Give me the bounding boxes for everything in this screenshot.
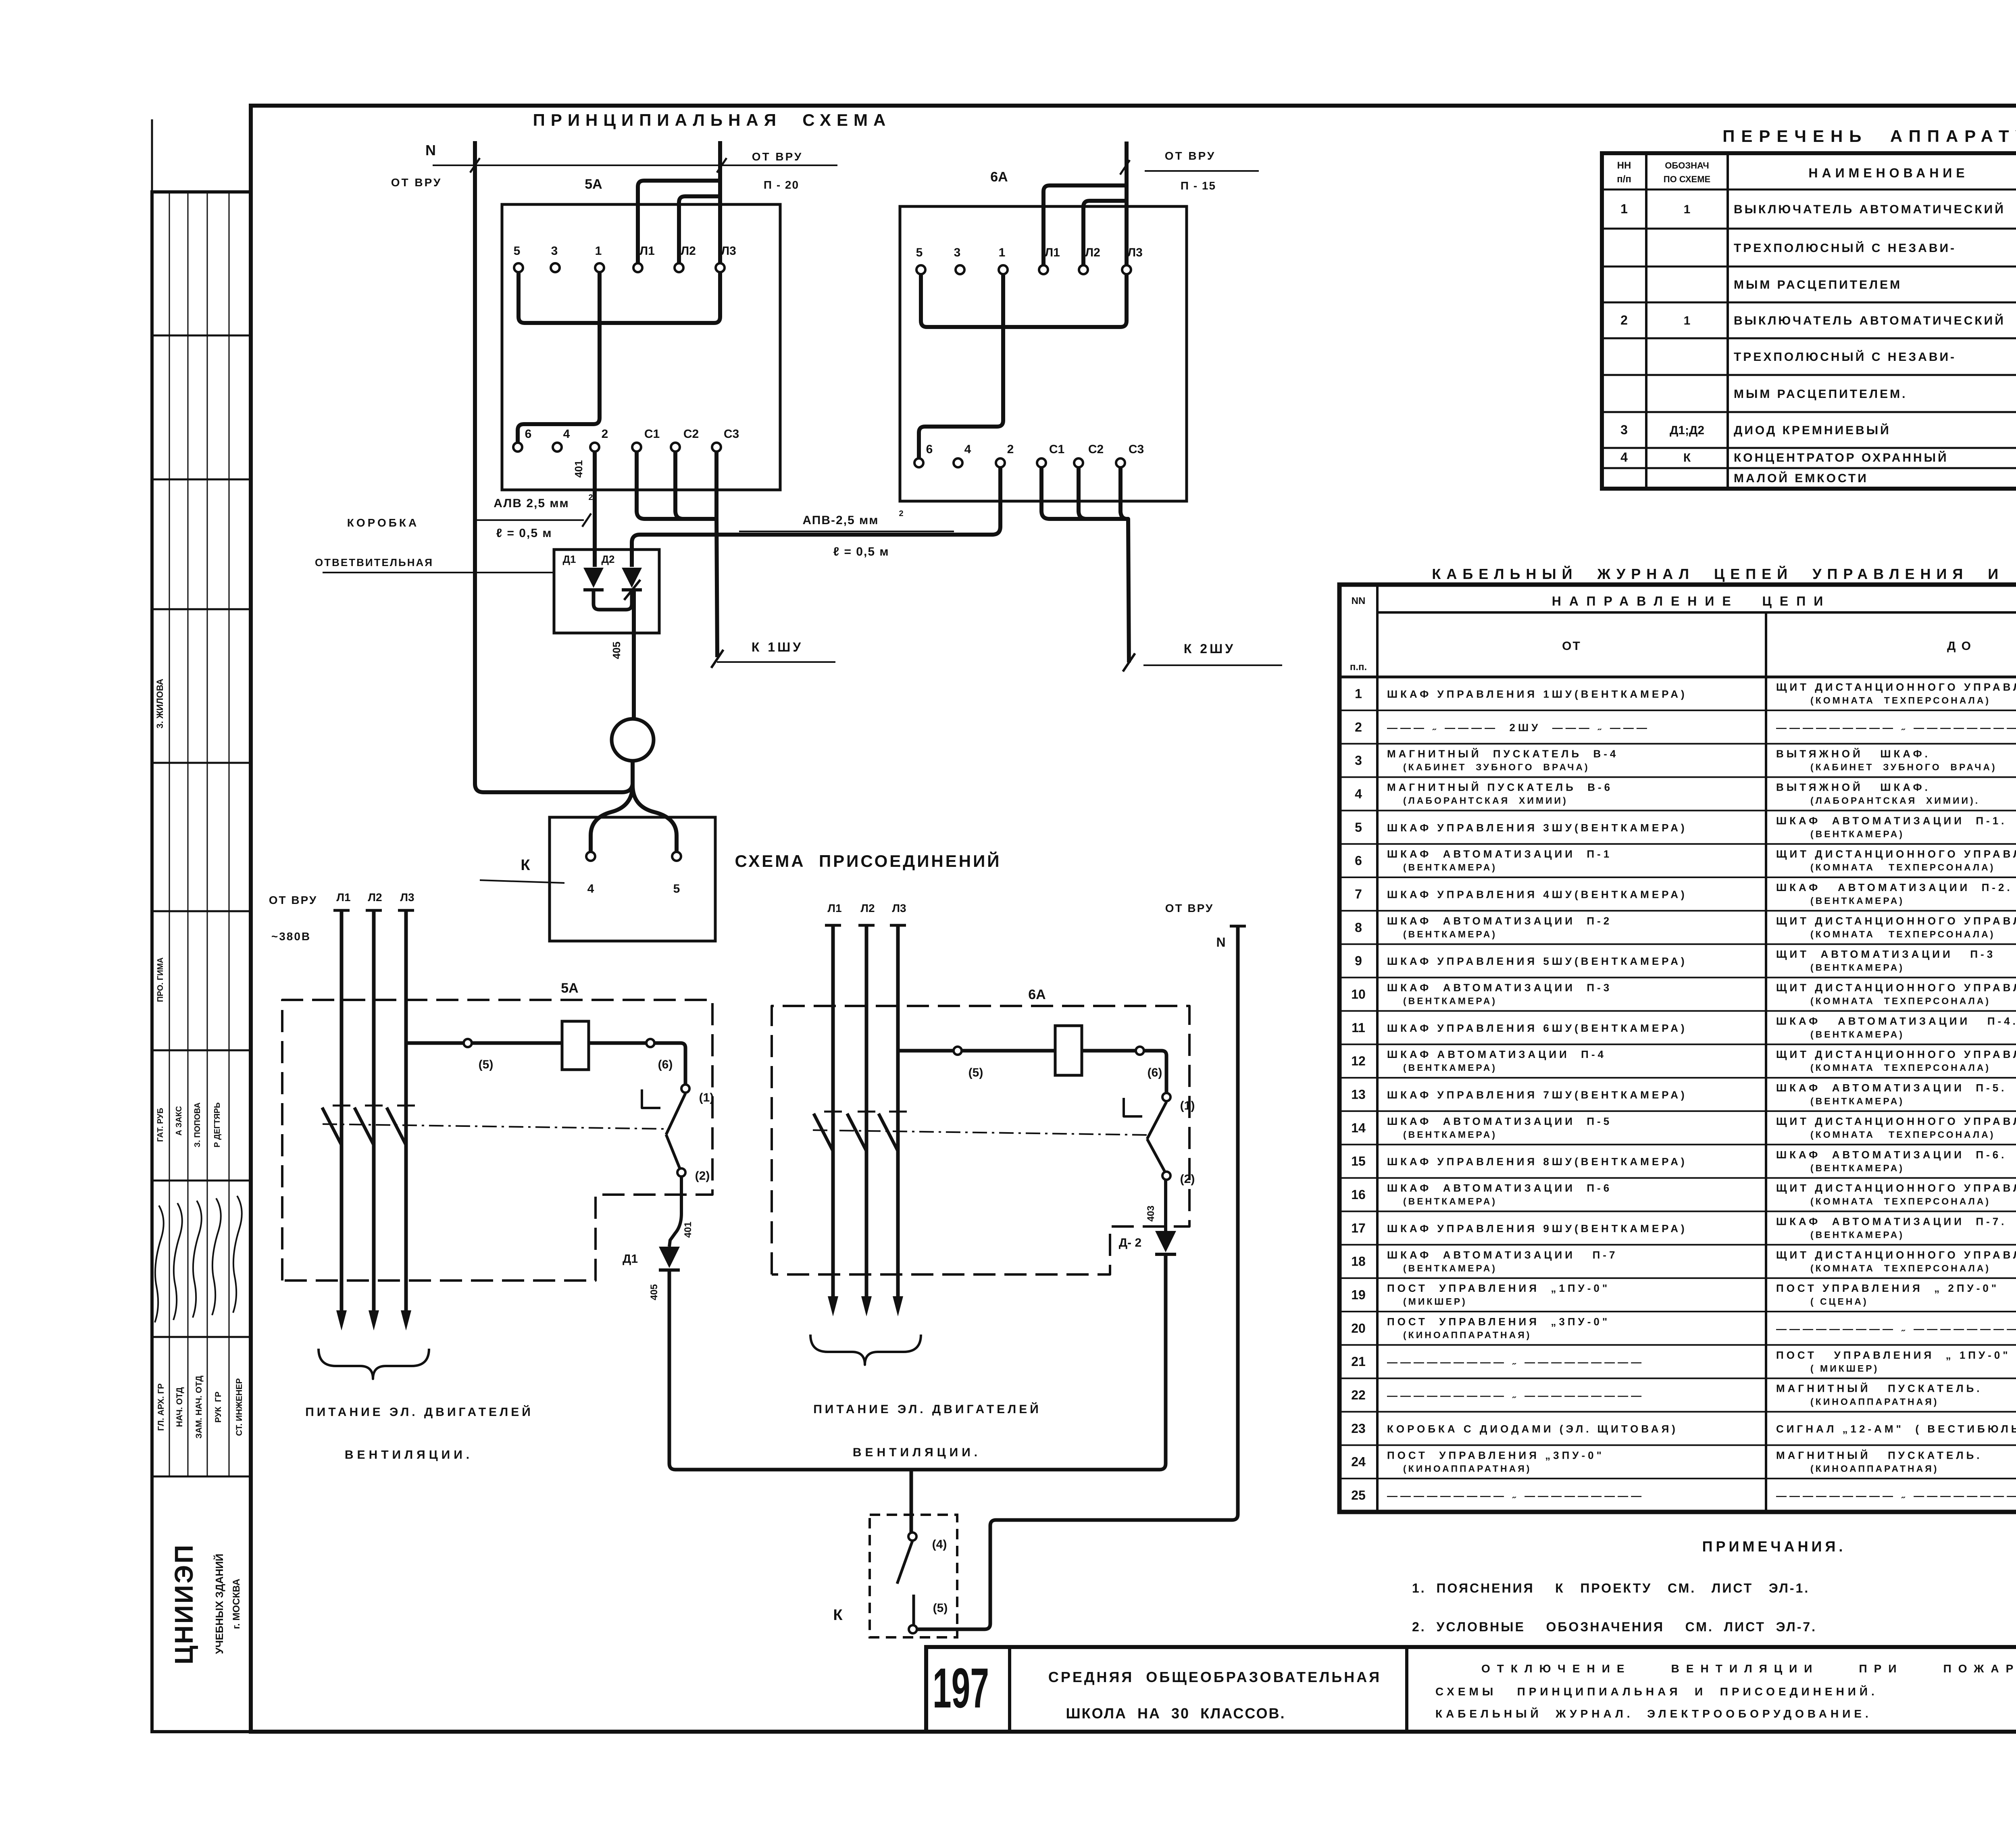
svg-text:2. УСЛОВНЫЕ ОБОЗНАЧЕНИЯ: 2. УСЛОВНЫЕ ОБОЗНАЧЕНИЯ СМ. ЛИСТ ЭЛ-7. [1412,1620,1817,1634]
svg-text:4: 4 [587,882,594,895]
svg-text:ШКАФ АВТОМАТИЗАЦИИ П-3: ШКАФ АВТОМАТИЗАЦИИ П-3 [1387,982,1612,994]
K terminal 5 [672,852,681,861]
wire 5A C2 merge [675,452,717,519]
svg-text:ШКОЛА НА 30 КЛАССОВ.: ШКОЛА НА 30 КЛАССОВ. [1066,1705,1286,1722]
svg-text:(КОМНАТА ТЕХПЕРСОНАЛА): (КОМНАТА ТЕХПЕРСОНАЛА) [1810,695,1991,706]
svg-text:Л1: Л1 [827,902,841,914]
svg-text:4: 4 [1620,450,1628,464]
svg-text:5А: 5А [585,177,602,192]
svg-text:14: 14 [1351,1120,1366,1135]
svg-text:197: 197 [933,1656,989,1720]
svg-text:21: 21 [1351,1354,1366,1369]
title block outline [926,1647,2016,1732]
svg-text:ЩИТ ДИСТАНЦИОННОГО УПРАВЛЕНИЯ.: ЩИТ ДИСТАНЦИОННОГО УПРАВЛЕНИЯ. [1776,848,2016,860]
svg-text:ℓ = 0,5 м: ℓ = 0,5 м [833,545,889,558]
wire 6A C2 merge [1079,467,1128,519]
svg-text:ДИОД КРЕМНИЕВЫЙ: ДИОД КРЕМНИЕВЫЙ [1734,423,1891,437]
svg-text:(КОМНАТА ТЕХПЕРСОНАЛА): (КОМНАТА ТЕХПЕРСОНАЛА) [1810,1263,1991,1273]
svg-text:(6): (6) [1148,1066,1162,1079]
svg-text:КОРОБКА С ДИОДАМИ (ЭЛ. ЩИТОВАЯ: КОРОБКА С ДИОДАМИ (ЭЛ. ЩИТОВАЯ) [1387,1423,1678,1435]
svg-text:ЩИТ АВТОМАТИЗАЦИИ П-3: ЩИТ АВТОМАТИЗАЦИИ П-3 [1776,948,1995,960]
wire (2) to diode Д-2, cable 403 [1164,1180,1167,1231]
svg-text:ШКАФ АВТОМАТИЗАЦИИ П-2.: ШКАФ АВТОМАТИЗАЦИИ П-2. [1776,881,2013,893]
svg-text:ВЫКЛЮЧАТЕЛЬ АВТОМАТИЧЕСКИЙ: ВЫКЛЮЧАТЕЛЬ АВТОМАТИЧЕСКИЙ [1734,202,2006,216]
leader line to junction box [323,572,554,573]
svg-text:МАГНИТНЫЙ ПУСКАТЕЛЬ.: МАГНИТНЫЙ ПУСКАТЕЛЬ. [1776,1449,1982,1461]
wire diode output 405 down to lamp [632,590,636,719]
svg-text:ПРИНЦИПИАЛЬНАЯ СХЕМА: ПРИНЦИПИАЛЬНАЯ СХЕМА [533,110,891,129]
svg-text:МАГНИТНЫЙ ПУСКАТЕЛЬ.: МАГНИТНЫЙ ПУСКАТЕЛЬ. [1776,1383,1982,1395]
breaker poles left unit [322,1108,342,1145]
release coil (right unit) [1055,1026,1082,1075]
svg-text:ЩИТ ДИСТАНЦИОННОГО УПРАВЛЕНИЯ.: ЩИТ ДИСТАНЦИОННОГО УПРАВЛЕНИЯ. [1776,681,2016,693]
svg-text:ЩИТ ДИСТАНЦИОННОГО УПРАВЛЕНИЯ.: ЩИТ ДИСТАНЦИОННОГО УПРАВЛЕНИЯ. [1776,915,2016,927]
concentrator K box (upper) [550,817,715,941]
svg-text:3: 3 [1355,753,1362,768]
svg-text:~380В: ~380В [271,930,311,943]
svg-text:ЩИТ ДИСТАНЦИОННОГО УПРАВЛЕНИЯ.: ЩИТ ДИСТАНЦИОННОГО УПРАВЛЕНИЯ. [1776,982,2016,994]
svg-text:МЫМ РАСЦЕПИТЕЛЕМ: МЫМ РАСЦЕПИТЕЛЕМ [1734,278,1902,292]
svg-text:ШКАФ АВТОМАТИЗАЦИИ П-7.: ШКАФ АВТОМАТИЗАЦИИ П-7. [1776,1215,2007,1227]
svg-text:4: 4 [964,443,971,456]
svg-text:ПОСТ УПРАВЛЕНИЯ „3ПУ-0": ПОСТ УПРАВЛЕНИЯ „3ПУ-0" [1387,1316,1610,1328]
svg-text:5: 5 [916,246,923,259]
left trim line [151,119,153,192]
svg-text:С3: С3 [724,427,739,441]
title block dividers [1008,1647,1011,1732]
svg-text:ЦНИИЭП: ЦНИИЭП [169,1543,198,1665]
svg-text:ЩИТ ДИСТАНЦИОННОГО УПРАВЛЕНИЯ.: ЩИТ ДИСТАНЦИОННОГО УПРАВЛЕНИЯ. [1776,1182,2016,1194]
svg-text:ПИТАНИЕ ЭЛ. ДВИГАТЕЛЕЙ: ПИТАНИЕ ЭЛ. ДВИГАТЕЛЕЙ [305,1405,533,1419]
svg-text:(ВЕНТКАМЕРА): (ВЕНТКАМЕРА) [1810,1163,1904,1173]
svg-text:ВЕНТИЛЯЦИИ.: ВЕНТИЛЯЦИИ. [345,1448,473,1462]
node tick on N line at N-bus [470,158,480,173]
svg-text:2: 2 [1620,313,1628,327]
wire 5A C3 down to к 1ШУ [716,452,717,657]
svg-text:6: 6 [525,427,532,441]
svg-text:АПВ-2,5 мм: АПВ-2,5 мм [803,514,879,527]
svg-text:(КАБИНЕТ ЗУБНОГО ВРАЧА): (КАБИНЕТ ЗУБНОГО ВРАЧА) [1810,762,1997,772]
svg-text:ТРЕХПОЛЮСНЫЙ С НЕЗАВИ-: ТРЕХПОЛЮСНЫЙ С НЕЗАВИ- [1734,350,1956,364]
svg-text:ПОСТ УПРАВЛЕНИЯ „1ПУ-0": ПОСТ УПРАВЛЕНИЯ „1ПУ-0" [1387,1282,1610,1294]
wire node to K terminal 4 [591,785,633,852]
svg-text:8: 8 [1355,920,1362,935]
svg-text:г. МОСКВА: г. МОСКВА [231,1578,242,1629]
diode D2 [622,568,642,588]
signal lamp [612,719,654,761]
sidebar vertical rules [169,192,170,1476]
svg-text:Д1: Д1 [563,553,576,565]
svg-text:(ВЕНТКАМЕРА): (ВЕНТКАМЕРА) [1810,1096,1904,1106]
svg-text:(ВЕНТКАМЕРА): (ВЕНТКАМЕРА) [1403,1263,1497,1273]
svg-text:403: 403 [1145,1206,1156,1222]
svg-text:ШКАФ АВТОМАТИЗАЦИИ П-6.: ШКАФ АВТОМАТИЗАЦИИ П-6. [1776,1149,2007,1161]
svg-text:1. ПОЯСНЕНИЯ К ПРОЕКТУ: 1. ПОЯСНЕНИЯ К ПРОЕКТУ СМ. ЛИСТ ЭЛ-1. [1412,1581,1810,1595]
5A terminals bottom row [513,443,522,452]
node tick on N line at 5A feeder [717,158,727,173]
svg-text:СТ. ИНЖЕНЕР: СТ. ИНЖЕНЕР [235,1378,244,1436]
svg-text:Д1: Д1 [623,1252,638,1266]
svg-text:17: 17 [1351,1221,1366,1235]
svg-text:405: 405 [649,1284,660,1300]
svg-text:С3: С3 [1129,443,1144,456]
svg-text:К 1ШУ: К 1ШУ [752,640,803,654]
svg-text:ШКАФ УПРАВЛЕНИЯ 6ШУ(ВЕНТКАМЕРА: ШКАФ УПРАВЛЕНИЯ 6ШУ(ВЕНТКАМЕРА) [1387,1022,1687,1034]
svg-text:ШКАФ АВТОМАТИЗАЦИИ П-4: ШКАФ АВТОМАТИЗАЦИИ П-4 [1387,1048,1606,1060]
svg-text:НАЧ. ОТД: НАЧ. ОТД [175,1387,184,1427]
svg-text:(4): (4) [932,1538,947,1551]
svg-text:(ВЕНТКАМЕРА): (ВЕНТКАМЕРА) [1403,1196,1497,1207]
svg-text:405: 405 [610,641,623,659]
svg-text:З. ПОПОВА: З. ПОПОВА [193,1102,202,1147]
equipment table grid [1602,153,2016,489]
svg-text:(1): (1) [699,1091,714,1104]
svg-text:ГЛ. АРХ. ГР: ГЛ. АРХ. ГР [156,1383,166,1431]
concentrator K dashed box (bottom) [870,1515,957,1637]
svg-text:(ВЕНТКАМЕРА): (ВЕНТКАМЕРА) [1810,895,1904,906]
svg-text:2: 2 [1355,720,1362,734]
diode D1 [583,568,604,588]
wire 5A: 5 to Л3 [519,272,720,323]
junction box with diodes [554,550,659,633]
breaker block 6A outline [900,206,1187,501]
svg-text:МАГНИТНЫЙ ПУСКАТЕЛЬ В-4: МАГНИТНЫЙ ПУСКАТЕЛЬ В-4 [1387,748,1618,760]
svg-text:6: 6 [1355,854,1362,868]
svg-text:(КИНОАППАРАТНАЯ): (КИНОАППАРАТНАЯ) [1810,1463,1939,1474]
svg-text:(МИКШЕР): (МИКШЕР) [1403,1296,1467,1307]
svg-text:ГАТ. РУБ: ГАТ. РУБ [156,1108,165,1142]
svg-text:1: 1 [1355,686,1362,701]
wire N feeder line [433,164,837,166]
svg-text:————————— ˶ —————————: ————————— ˶ ————————— [1776,721,2016,733]
svg-text:1: 1 [1684,314,1691,327]
svg-text:ШКАФ УПРАВЛЕНИЯ 9ШУ(ВЕНТКАМЕРА: ШКАФ УПРАВЛЕНИЯ 9ШУ(ВЕНТКАМЕРА) [1387,1222,1687,1235]
svg-text:Л3: Л3 [400,891,414,904]
aux contact (2) (right unit) [1162,1172,1170,1180]
svg-text:(КИНОАППАРАТНАЯ): (КИНОАППАРАТНАЯ) [1403,1330,1531,1340]
svg-text:п.п.: п.п. [1350,662,1367,673]
svg-text:(КОМНАТА ТЕХПЕРСОНАЛА): (КОМНАТА ТЕХПЕРСОНАЛА) [1810,1129,1995,1140]
svg-text:13: 13 [1351,1087,1366,1102]
svg-text:ШКАФ АВТОМАТИЗАЦИИ П-4.: ШКАФ АВТОМАТИЗАЦИИ П-4. [1776,1015,2016,1027]
svg-text:РУК ГР: РУК ГР [214,1391,223,1422]
5A terminals top row [514,263,523,272]
wire junction to K(4) [910,1470,913,1532]
svg-text:————————— ˶ —————————: ————————— ˶ ————————— [1387,1389,1644,1401]
svg-text:3. ЖИЛОВА: 3. ЖИЛОВА [155,679,165,728]
svg-text:Л3: Л3 [892,902,906,914]
svg-text:( МИКШЕР): ( МИКШЕР) [1810,1363,1879,1374]
svg-text:ШКАФ АВТОМАТИЗАЦИИ П-1: ШКАФ АВТОМАТИЗАЦИИ П-1 [1387,848,1612,860]
svg-text:(ВЕНТКАМЕРА): (ВЕНТКАМЕРА) [1403,1129,1497,1140]
svg-text:ОТ ВРУ: ОТ ВРУ [752,150,803,163]
wire 5A feeder vertical [718,141,722,263]
svg-text:1: 1 [1684,203,1691,216]
svg-text:ШКАФ АВТОМАТИЗАЦИИ П-7: ШКАФ АВТОМАТИЗАЦИИ П-7 [1387,1249,1618,1261]
N bus top bar (right unit) [1230,925,1246,928]
svg-text:2: 2 [588,493,593,502]
svg-text:Д2: Д2 [602,553,615,565]
svg-text:————————— ˶ —————————: ————————— ˶ ————————— [1387,1356,1644,1368]
svg-text:ШКАФ АВТОМАТИЗАЦИИ П-6: ШКАФ АВТОМАТИЗАЦИИ П-6 [1387,1182,1612,1194]
wire lamp to node [631,761,635,786]
svg-text:4: 4 [563,427,570,441]
svg-text:Д О: Д О [1947,639,1972,653]
cable journal table grid [1339,585,2016,1512]
svg-text:К: К [521,857,530,874]
svg-text:ШКАФ УПРАВЛЕНИЯ 7ШУ(ВЕНТКАМЕРА: ШКАФ УПРАВЛЕНИЯ 7ШУ(ВЕНТКАМЕРА) [1387,1089,1687,1101]
wire D1-D2 link [594,590,632,610]
svg-text:МАГНИТНЫЙ ПУСКАТЕЛЬ В-6: МАГНИТНЫЙ ПУСКАТЕЛЬ В-6 [1387,781,1613,793]
aux contact (2) (left unit) [677,1168,685,1176]
svg-text:(ВЕНТКАМЕРА): (ВЕНТКАМЕРА) [1403,996,1497,1006]
svg-text:5: 5 [673,882,680,895]
svg-text:ЩИТ ДИСТАНЦИОННОГО УПРАВЛЕНИЯ.: ЩИТ ДИСТАНЦИОННОГО УПРАВЛЕНИЯ. [1776,1249,2016,1261]
wire 5A: Л1 feeder tap [638,181,720,263]
svg-text:(ВЕНТКАМЕРА): (ВЕНТКАМЕРА) [1810,962,1904,973]
svg-text:К: К [1683,451,1691,464]
svg-text:К 2ШУ: К 2ШУ [1184,641,1235,656]
svg-text:N: N [425,142,436,158]
svg-text:1: 1 [999,246,1006,259]
svg-text:Л3: Л3 [721,244,736,258]
release coil (left unit) [562,1021,589,1070]
svg-text:К: К [833,1607,843,1624]
svg-text:(5): (5) [479,1058,494,1071]
svg-text:4: 4 [1355,787,1362,801]
svg-text:————————— ˶ —————————: ————————— ˶ ————————— [1776,1322,2016,1335]
svg-text:401: 401 [683,1222,694,1238]
node tick 6A feeder [1120,160,1130,175]
wire 6A: Л2 feeder tap [1083,201,1127,265]
svg-text:С2: С2 [683,427,699,441]
wire 6A: 5 to Л3 [921,274,1127,327]
aux contact (1) (right unit) [1162,1093,1170,1101]
wire 6A: Л1 feeder tap [1043,185,1127,265]
contactor dashed box 5А (left unit) [282,1000,712,1281]
phase lines left unit with arrows [333,909,350,912]
svg-text:23: 23 [1351,1421,1366,1436]
svg-text:22: 22 [1351,1388,1366,1402]
svg-text:ВЫКЛЮЧАТЕЛЬ АВТОМАТИЧЕСКИЙ: ВЫКЛЮЧАТЕЛЬ АВТОМАТИЧЕСКИЙ [1734,314,2006,327]
arrow tick к 1ШУ [711,650,723,668]
svg-text:П - 20: П - 20 [764,179,799,191]
svg-text:(КИНОАППАРАТНАЯ): (КИНОАППАРАТНАЯ) [1403,1463,1531,1474]
svg-text:НАПРАВЛЕНИЕ ЦЕПИ: НАПРАВЛЕНИЕ ЦЕПИ [1552,594,1831,608]
svg-text:25: 25 [1351,1488,1366,1503]
svg-text:(ВЕНТКАМЕРА): (ВЕНТКАМЕРА) [1810,1229,1904,1240]
svg-text:ОБОЗНАЧ: ОБОЗНАЧ [1665,160,1709,171]
svg-text:(ВЕНТКАМЕРА): (ВЕНТКАМЕРА) [1810,829,1904,839]
wire K(5) to N bus [917,926,1238,1629]
svg-text:АЛВ 2,5 мм: АЛВ 2,5 мм [494,497,569,510]
svg-text:Л1: Л1 [336,891,350,904]
svg-text:ШКАФ АВТОМАТИЗАЦИИ П-5.: ШКАФ АВТОМАТИЗАЦИИ П-5. [1776,1082,2007,1094]
6A terminals top row [916,265,925,274]
svg-text:3: 3 [551,244,558,258]
svg-text:(ВЕНТКАМЕРА): (ВЕНТКАМЕРА) [1403,929,1497,939]
svg-text:N: N [1216,935,1225,949]
svg-text:СХЕМЫ ПРИНЦИПИАЛЬНАЯ И ПРИ: СХЕМЫ ПРИНЦИПИАЛЬНАЯ И ПРИСОЕДИНЕНИЙ. [1435,1685,1878,1698]
wire 6A: 1 to 6 [919,274,1003,458]
svg-text:(ЛАБОРАНТСКАЯ ХИМИИ).: (ЛАБОРАНТСКАЯ ХИМИИ). [1810,795,1980,806]
svg-text:5: 5 [514,244,521,258]
svg-text:ТРЕХПОЛЮСНЫЙ С НЕЗАВИ-: ТРЕХПОЛЮСНЫЙ С НЕЗАВИ- [1734,241,1956,255]
svg-text:——— ˶ ———— 2ШУ ——— ˶ ———: ——— ˶ ———— 2ШУ ——— ˶ ——— [1387,721,1650,733]
svg-text:Л2: Л2 [368,891,382,904]
svg-text:Р ДЕГТЯРЬ: Р ДЕГТЯРЬ [213,1102,222,1147]
svg-text:СРЕДНЯЯ ОБЩЕОБРАЗОВАТЕЛЬНАЯ: СРЕДНЯЯ ОБЩЕОБРАЗОВАТЕЛЬНАЯ [1048,1669,1381,1685]
svg-text:ВЕНТИЛЯЦИИ.: ВЕНТИЛЯЦИИ. [853,1446,981,1459]
svg-text:(5): (5) [933,1601,948,1615]
wire 5A: 1 to 6 [518,272,600,443]
svg-text:ВЫТЯЖНОЙ ШКАФ.: ВЫТЯЖНОЙ ШКАФ. [1776,781,1931,793]
svg-text:ПЕРЕЧЕНЬ АППАРАТУРЫ: ПЕРЕЧЕНЬ АППАРАТУРЫ [1722,127,2016,146]
wire diode bus connecting Д1 and Д-2 [669,1254,1166,1470]
svg-text:Д- 2: Д- 2 [1119,1236,1141,1249]
svg-text:ШКАФ УПРАВЛЕНИЯ 3ШУ(ВЕНТКАМЕРА: ШКАФ УПРАВЛЕНИЯ 3ШУ(ВЕНТКАМЕРА) [1387,822,1687,834]
svg-text:С2: С2 [1088,443,1104,456]
svg-text:11: 11 [1352,1020,1365,1035]
control wire with coil (right unit) [898,1049,954,1053]
svg-text:Л2: Л2 [860,902,875,914]
svg-text:ОТ: ОТ [1562,639,1581,653]
svg-text:п/п: п/п [1617,174,1631,185]
svg-text:10: 10 [1351,987,1366,1002]
svg-text:NN: NN [1352,596,1366,606]
svg-text:СИГНАЛ „12-АМ" ( ВЕСТИБЮЛЬ): СИГНАЛ „12-АМ" ( ВЕСТИБЮЛЬ) [1776,1423,2016,1435]
svg-text:(2): (2) [1180,1172,1195,1186]
contactor dashed box 6А (right unit) [772,1006,1189,1274]
K bottom terminal (4) [908,1532,916,1541]
svg-text:9: 9 [1355,954,1362,968]
svg-text:(КОМНАТА ТЕХПЕРСОНАЛА): (КОМНАТА ТЕХПЕРСОНАЛА) [1810,862,1995,872]
drawing sheet outer frame [251,106,2016,1732]
wire 5A C1 merge [637,452,717,519]
svg-text:КАБЕЛЬНЫЙ ЖУРНАЛ. ЭЛЕКТРООБО: КАБЕЛЬНЫЙ ЖУРНАЛ. ЭЛЕКТРООБОРУДОВАНИЕ. [1435,1707,1872,1720]
linkage dash-dot line right unit [813,1130,1147,1135]
sidebar horizontal dividers [152,335,251,337]
svg-text:(2): (2) [695,1169,710,1183]
svg-text:ШКАФ УПРАВЛЕНИЯ 5ШУ(ВЕНТКАМЕРА: ШКАФ УПРАВЛЕНИЯ 5ШУ(ВЕНТКАМЕРА) [1387,955,1687,967]
svg-text:МЫМ РАСЦЕПИТЕЛЕМ.: МЫМ РАСЦЕПИТЕЛЕМ. [1734,387,1907,401]
arrow tick к 2ШУ [1123,654,1135,672]
svg-text:(ВЕНТКАМЕРА): (ВЕНТКАМЕРА) [1403,862,1497,872]
svg-text:(5): (5) [968,1066,983,1079]
K bottom switch blade [897,1541,912,1584]
svg-text:С1: С1 [644,427,660,441]
svg-text:6А: 6А [990,169,1008,185]
svg-text:(КОМНАТА ТЕХПЕРСОНАЛА): (КОМНАТА ТЕХПЕРСОНАЛА) [1810,1196,1991,1207]
svg-text:2: 2 [1007,443,1014,456]
brace under right unit phases [810,1335,921,1365]
wire 5A terminal 2 down to diode D1, cable 401 [593,452,597,567]
svg-text:Л2: Л2 [1085,246,1100,259]
wire 6A C3 down to к 2ШУ [1120,467,1129,662]
6A terminals bottom row [914,458,923,467]
svg-text:(ЛАБОРАНТСКАЯ ХИМИИ): (ЛАБОРАНТСКАЯ ХИМИИ) [1403,795,1568,806]
svg-text:ПРО. ГИМА: ПРО. ГИМА [156,958,165,1002]
svg-text:ПРИМЕЧАНИЯ.: ПРИМЕЧАНИЯ. [1702,1538,1846,1555]
wire 6A feeder vertical [1125,142,1129,265]
wire 5A: Л2 feeder tap [679,196,720,263]
svg-text:(ВЕНТКАМЕРА): (ВЕНТКАМЕРА) [1810,1029,1904,1039]
svg-text:ПИТАНИЕ ЭЛ. ДВИГАТЕЛЕЙ: ПИТАНИЕ ЭЛ. ДВИГАТЕЛЕЙ [813,1402,1041,1416]
svg-text:КОНЦЕНТРАТОР ОХРАННЫЙ: КОНЦЕНТРАТОР ОХРАННЫЙ [1734,451,1949,464]
svg-text:С1: С1 [1049,443,1064,456]
svg-text:ЩИТ ДИСТАНЦИОННОГО УПРАВЛЕНИЯ.: ЩИТ ДИСТАНЦИОННОГО УПРАВЛЕНИЯ. [1776,1115,2016,1127]
svg-text:(1): (1) [1180,1099,1195,1112]
wire N bus down to node [475,141,633,792]
sidebar signatures [155,1206,164,1322]
wire node to K terminal 5 [633,785,677,852]
svg-text:3: 3 [954,246,961,259]
svg-text:ШКАФ УПРАВЛЕНИЯ 8ШУ(ВЕНТКАМЕРА: ШКАФ УПРАВЛЕНИЯ 8ШУ(ВЕНТКАМЕРА) [1387,1156,1687,1168]
svg-text:(КОМНАТА ТЕХПЕРСОНАЛА): (КОМНАТА ТЕХПЕРСОНАЛА) [1810,996,1991,1006]
svg-text:ШКАФ АВТОМАТИЗАЦИИ П-1.: ШКАФ АВТОМАТИЗАЦИИ П-1. [1776,814,2007,827]
svg-text:ШКАФ УПРАВЛЕНИЯ 1ШУ(ВЕНТКАМЕРА: ШКАФ УПРАВЛЕНИЯ 1ШУ(ВЕНТКАМЕРА) [1387,688,1687,700]
svg-text:СХЕМА ПРИСОЕДИНЕНИЙ: СХЕМА ПРИСОЕДИНЕНИЙ [735,851,1002,870]
K bottom terminal (5) [909,1625,917,1633]
svg-text:Л3: Л3 [1127,246,1143,259]
svg-text:НН: НН [1617,160,1631,171]
svg-text:НАИМЕНОВАНИЕ: НАИМЕНОВАНИЕ [1808,166,1968,180]
svg-text:КАБЕЛЬНЫЙ ЖУРНАЛ ЦЕПЕЙ УПРА: КАБЕЛЬНЫЙ ЖУРНАЛ ЦЕПЕЙ УПРАВЛЕНИЯ И СИГН… [1432,565,2016,582]
svg-text:ОТ ВРУ: ОТ ВРУ [269,894,318,906]
svg-text:УЧЕБНЫХ ЗДАНИЙ: УЧЕБНЫХ ЗДАНИЙ [213,1553,225,1654]
svg-text:Л1: Л1 [1045,246,1060,259]
svg-text:ПОСТ УПРАВЛЕНИЯ „ 1ПУ-0": ПОСТ УПРАВЛЕНИЯ „ 1ПУ-0" [1776,1349,2011,1361]
svg-text:24: 24 [1351,1455,1366,1469]
sidebar stamp box [152,192,251,1732]
svg-text:А ЗАКС: А ЗАКС [175,1106,183,1135]
svg-text:(6): (6) [658,1058,673,1071]
svg-text:ℓ = 0,5 м: ℓ = 0,5 м [496,527,552,540]
svg-text:ОТВЕТВИТЕЛЬНАЯ: ОТВЕТВИТЕЛЬНАЯ [315,556,433,568]
svg-text:(КИНОАППАРАТНАЯ): (КИНОАППАРАТНАЯ) [1810,1397,1939,1407]
svg-text:401: 401 [573,460,585,477]
svg-text:5А: 5А [561,981,578,996]
svg-text:1: 1 [1620,202,1628,216]
svg-text:( СЦЕНА): ( СЦЕНА) [1810,1296,1868,1307]
control wire with coil (left unit) [406,1041,464,1045]
svg-text:МАЛОЙ ЕМКОСТИ: МАЛОЙ ЕМКОСТИ [1734,471,1868,485]
svg-text:Д1;Д2: Д1;Д2 [1670,424,1704,437]
svg-text:ВЫТЯЖНОЙ ШКАФ.: ВЫТЯЖНОЙ ШКАФ. [1776,748,1931,760]
svg-text:П - 15: П - 15 [1181,179,1216,192]
svg-text:20: 20 [1351,1321,1366,1335]
wire (2) to diode Д1 (left unit) [669,1176,681,1247]
svg-text:————————— ˶ —————————: ————————— ˶ ————————— [1776,1490,2016,1502]
svg-text:2: 2 [899,509,903,518]
wire 6A terminal 2 to diode D2, horizontal run [632,467,1000,567]
wire 6A C1 merge [1041,467,1128,519]
svg-text:КОРОБКА: КОРОБКА [347,516,419,529]
svg-text:ОТКЛЮЧЕНИЕ ВЕНТИЛЯЦИИ ПР: ОТКЛЮЧЕНИЕ ВЕНТИЛЯЦИИ ПРИ ПОЖАРЕ., [1481,1662,2016,1675]
svg-text:ОТ ВРУ: ОТ ВРУ [1165,150,1216,162]
svg-text:6: 6 [926,443,933,456]
phase lines right unit with arrows [825,924,841,927]
svg-text:7: 7 [1355,887,1362,901]
svg-text:(ВЕНТКАМЕРА): (ВЕНТКАМЕРА) [1403,1062,1497,1073]
svg-text:ШКАФ УПРАВЛЕНИЯ 4ШУ(ВЕНТКАМЕРА: ШКАФ УПРАВЛЕНИЯ 4ШУ(ВЕНТКАМЕРА) [1387,888,1687,900]
svg-text:(КАБИНЕТ ЗУБНОГО ВРАЧА): (КАБИНЕТ ЗУБНОГО ВРАЧА) [1403,762,1590,772]
svg-text:ШКАФ АВТОМАТИЗАЦИИ П-2: ШКАФ АВТОМАТИЗАЦИИ П-2 [1387,915,1612,927]
svg-text:ОТ ВРУ: ОТ ВРУ [391,176,442,189]
svg-text:ОТ ВРУ: ОТ ВРУ [1165,902,1214,914]
linkage dash-dot line left unit [323,1124,666,1129]
svg-text:2: 2 [602,427,608,441]
